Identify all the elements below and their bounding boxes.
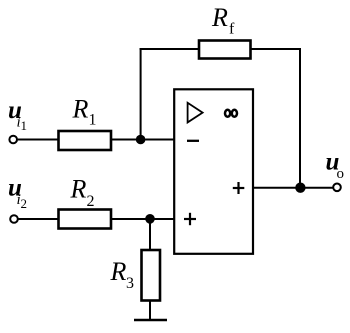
wire feedback top left (140, 48, 199, 50)
label R1 (72, 94, 97, 128)
terminal output (333, 184, 341, 192)
label u_i2 (8, 175, 27, 211)
svg-text:R: R (211, 3, 228, 32)
label R2 (70, 175, 95, 210)
wire feedback vertical left (140, 48, 142, 141)
svg-text:3: 3 (126, 275, 134, 292)
svg-text:2: 2 (21, 196, 28, 211)
ground (134, 319, 167, 322)
label Rf (211, 3, 235, 37)
terminal input 2 (10, 215, 18, 223)
resistor R1 (59, 131, 112, 150)
resistor Rf (199, 41, 251, 59)
wire input2 left (18, 218, 60, 220)
wire feedback top right (250, 48, 301, 50)
label u_i1 (8, 97, 27, 133)
node A junction (inverting input) (136, 135, 146, 145)
wire R3 top (149, 219, 151, 250)
op-amp U1 body (174, 89, 253, 254)
op-amp minus input sign (187, 140, 199, 142)
resistor R2 (59, 210, 112, 229)
wire input2 right (110, 218, 174, 220)
wire input1 left (17, 139, 60, 141)
svg-text:f: f (229, 20, 235, 37)
label R3 (110, 257, 135, 292)
svg-text:1: 1 (21, 118, 28, 133)
svg-text:1: 1 (89, 112, 97, 129)
svg-text:R: R (110, 257, 127, 286)
op-amp triangle symbol (188, 103, 203, 123)
svg-text:R: R (72, 94, 89, 123)
terminal input 1 (9, 136, 17, 144)
op-amp output plus sign (233, 182, 245, 194)
op-amp plus input sign (184, 213, 196, 225)
resistor R3 (142, 250, 161, 301)
svg-text:o: o (337, 166, 345, 182)
svg-text:R: R (70, 175, 87, 204)
node B junction (non-inverting input) (145, 214, 155, 224)
wire output (253, 187, 333, 189)
svg-text:2: 2 (87, 193, 95, 210)
node C junction (output) (295, 183, 305, 193)
wire R3 bottom (149, 300, 151, 319)
label u_o (326, 149, 345, 182)
wire input1 right (110, 139, 174, 141)
wire feedback vertical right (299, 48, 301, 189)
op-amp infinity symbol (225, 110, 237, 117)
